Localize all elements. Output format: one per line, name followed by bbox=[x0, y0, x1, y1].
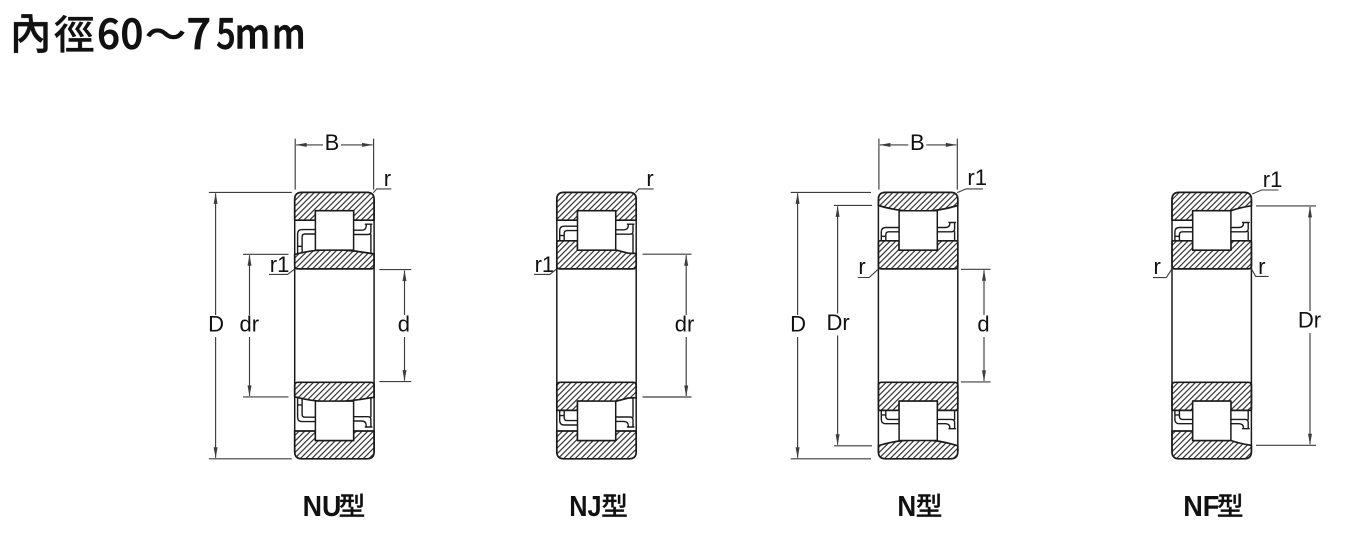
svg-text:Dr: Dr bbox=[1298, 308, 1321, 333]
inner ring top section (NU) bbox=[295, 250, 374, 269]
svg-text:d: d bbox=[398, 312, 410, 337]
svg-text:D: D bbox=[208, 312, 224, 337]
dimension D (NU) bbox=[209, 192, 292, 458]
inner ring top section (NJ) bbox=[557, 241, 636, 269]
svg-text:dr: dr bbox=[240, 312, 260, 337]
roller top (NJ) bbox=[578, 211, 616, 250]
bearing side edges (NF) bbox=[1172, 199, 1251, 451]
svg-text:d: d bbox=[977, 312, 989, 337]
cage left top (NF) bbox=[1175, 228, 1193, 241]
dimension d (N) bbox=[961, 269, 991, 382]
svg-text:N: N bbox=[897, 491, 916, 523]
outer ring bottom section (NF) bbox=[1172, 431, 1251, 459]
inner ring top section (NF) bbox=[1172, 241, 1251, 269]
svg-text:B: B bbox=[910, 130, 925, 155]
svg-text:dr: dr bbox=[675, 312, 695, 337]
inner ring bottom section (N) bbox=[878, 382, 957, 410]
svg-text:D: D bbox=[790, 312, 806, 337]
roller bottom (N) bbox=[899, 401, 937, 440]
svg-text:NF: NF bbox=[1183, 491, 1219, 523]
svg-text:r: r bbox=[1258, 254, 1265, 279]
cage left top (NU) bbox=[298, 230, 316, 253]
svg-text:r1: r1 bbox=[270, 252, 290, 277]
svg-text:r: r bbox=[1154, 254, 1161, 279]
roller bottom (NU) bbox=[315, 401, 353, 440]
svg-text:r1: r1 bbox=[967, 165, 987, 190]
outer ring top section (NJ) bbox=[557, 192, 636, 220]
dimension dr (NU) bbox=[243, 254, 289, 397]
cage left bottom (NJ) bbox=[560, 410, 578, 425]
roller top (N) bbox=[899, 211, 937, 250]
outer ring bottom section (N) bbox=[878, 440, 957, 459]
inner ring top section (N) bbox=[878, 241, 957, 269]
cage right bottom (NF) bbox=[1231, 410, 1249, 428]
roller bottom (NJ) bbox=[578, 401, 616, 440]
cage left bottom (NF) bbox=[1175, 410, 1193, 423]
cage left top (NJ) bbox=[560, 226, 578, 241]
svg-text:Dr: Dr bbox=[826, 310, 849, 335]
outer ring top section (NF) bbox=[1172, 192, 1251, 220]
svg-text:NU: NU bbox=[303, 491, 342, 523]
dimension d (NU) bbox=[379, 270, 411, 382]
inner ring bottom section (NU) bbox=[295, 382, 374, 401]
svg-text:r: r bbox=[384, 166, 391, 191]
cage right top (N) bbox=[937, 223, 955, 241]
cage right top (NU) bbox=[354, 224, 372, 253]
svg-text:r: r bbox=[858, 254, 865, 279]
svg-text:NJ: NJ bbox=[569, 491, 601, 523]
outer ring bottom section (NJ) bbox=[557, 431, 636, 459]
cage right bottom (N) bbox=[937, 410, 955, 428]
dimension B (NU) bbox=[295, 139, 373, 190]
dimension Dr (N) bbox=[834, 205, 872, 445]
bearing side edges (NJ) bbox=[557, 199, 636, 451]
cage right top (NF) bbox=[1231, 223, 1249, 241]
roller top (NU) bbox=[315, 211, 353, 250]
roller top (NF) bbox=[1193, 211, 1231, 250]
outer ring top section (NU) bbox=[295, 192, 374, 220]
roller bottom (NF) bbox=[1193, 401, 1231, 440]
cage right bottom (NJ) bbox=[616, 398, 634, 427]
cage right top (NJ) bbox=[616, 224, 634, 253]
svg-text:r: r bbox=[646, 166, 653, 191]
bearing side edges (NU) bbox=[295, 199, 374, 451]
svg-text:B: B bbox=[325, 130, 340, 155]
cage left bottom (N) bbox=[881, 410, 899, 423]
outer ring bottom section (NU) bbox=[295, 431, 374, 459]
dimension dr (NJ) bbox=[643, 254, 692, 397]
cage right bottom (NU) bbox=[354, 398, 372, 427]
bearing side edges (N) bbox=[878, 199, 957, 451]
dimension B (N) bbox=[879, 139, 957, 190]
page title 內徑60～75mm bbox=[14, 14, 303, 53]
dimension D (N) bbox=[791, 192, 871, 458]
cage left bottom (NU) bbox=[298, 398, 316, 421]
outer ring top section (N) bbox=[878, 192, 957, 211]
cage left top (N) bbox=[881, 228, 899, 241]
svg-text:r1: r1 bbox=[1263, 167, 1283, 192]
dimension Dr (NF) bbox=[1256, 206, 1316, 445]
inner ring bottom section (NJ) bbox=[557, 382, 636, 410]
inner ring bottom section (NF) bbox=[1172, 382, 1251, 410]
